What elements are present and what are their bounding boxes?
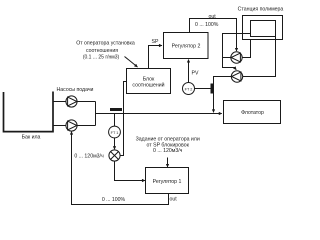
svg-text:Насосы подачи: Насосы подачи xyxy=(57,87,94,93)
wire: pump branch 2 (left) xyxy=(53,125,96,127)
tank "Бак ила" xyxy=(4,92,54,132)
wire: FT2 tap to polymer pipe xyxy=(195,88,214,90)
svg-text:out: out xyxy=(209,14,217,20)
block Блок соотношений xyxy=(127,69,171,94)
svg-text:соотношений: соотношений xyxy=(132,82,164,89)
block Флотатор xyxy=(224,101,281,124)
orifice plate FE1 xyxy=(110,108,122,111)
orifice plate FE2 xyxy=(211,84,214,94)
svg-text:соотношения: соотношения xyxy=(86,48,118,54)
svg-text:FT 1: FT 1 xyxy=(111,131,119,135)
wire: FT1 signal down into multiplier xyxy=(114,138,116,149)
svg-text:PV: PV xyxy=(192,71,199,77)
svg-text:0 ... 100%: 0 ... 100% xyxy=(195,22,219,28)
wire: tap from orifice down to FT1 xyxy=(114,114,116,127)
wire: ratio input from Блок соотношений to multiplier xyxy=(120,82,126,156)
pump P2 Насосы подачи (bottom) xyxy=(66,120,77,131)
svg-text:От оператора установка: От оператора установка xyxy=(76,41,135,47)
svg-text:out: out xyxy=(170,197,178,203)
wire: suction of pump P4 from station tank xyxy=(243,37,276,77)
wire: pump branch 1 (left) xyxy=(53,101,96,103)
svg-text:Регулятор 1: Регулятор 1 xyxy=(153,179,182,185)
svg-text:FT 2: FT 2 xyxy=(185,87,193,91)
wire: pump P3 discharge to left xyxy=(223,57,231,59)
wire: Регулятор 1 out down, left and up to pump P2 speed xyxy=(72,132,169,205)
wire: Блок соотношений output to SP of Регулятор 2 xyxy=(149,46,163,69)
wire: right header joining branches xyxy=(95,102,97,126)
annotation arrow from operator text to Блок соотношений xyxy=(125,57,138,68)
svg-text:Блок: Блок xyxy=(143,76,155,82)
wire: main sludge pipe to flotator xyxy=(96,113,222,115)
svg-text:Бак ила: Бак ила xyxy=(22,135,41,141)
wire: FT2 PV up into Регулятор 2 xyxy=(188,60,190,83)
svg-text:Станция полимера: Станция полимера xyxy=(238,6,284,12)
wire: SP (задание) down into Регулятор 1 xyxy=(167,158,169,168)
svg-text:Флотатор: Флотатор xyxy=(241,110,264,116)
wire: suction of pump P3 from station tank xyxy=(242,40,250,58)
polymer pump P3 (upper) xyxy=(231,52,242,63)
svg-text:(0.1 ... 25 г/нм3): (0.1 ... 25 г/нм3) xyxy=(83,54,120,60)
svg-text:0 ... 120м3/ч: 0 ... 120м3/ч xyxy=(74,154,104,160)
pump P1 Насосы подачи (top) xyxy=(66,96,77,107)
transmitter FT1 xyxy=(109,126,121,138)
wire: polymer pipe from pump P4 down into sludge pipe xyxy=(214,77,232,113)
station Станция полимера outer box xyxy=(243,16,283,40)
controller Регулятор 1 xyxy=(146,168,189,194)
multiplier block (x) xyxy=(109,150,120,161)
wire: multiplier output to Регулятор 1 PV xyxy=(115,161,146,180)
station inner tank xyxy=(251,21,276,37)
controller Регулятор 2 xyxy=(164,33,209,59)
svg-text:0 ... 100%: 0 ... 100% xyxy=(102,197,126,203)
polymer pump P4 (lower) xyxy=(231,71,242,82)
svg-text:SP: SP xyxy=(152,39,159,45)
transmitter FT2 xyxy=(183,83,195,95)
wire: Регулятор 2 out to polymer pump 1 xyxy=(190,19,237,52)
wire: station feed line to pump P4 top xyxy=(223,34,251,70)
svg-text:Регулятор 2: Регулятор 2 xyxy=(172,44,201,50)
svg-text:0 ... 120м3/ч: 0 ... 120м3/ч xyxy=(153,148,183,154)
